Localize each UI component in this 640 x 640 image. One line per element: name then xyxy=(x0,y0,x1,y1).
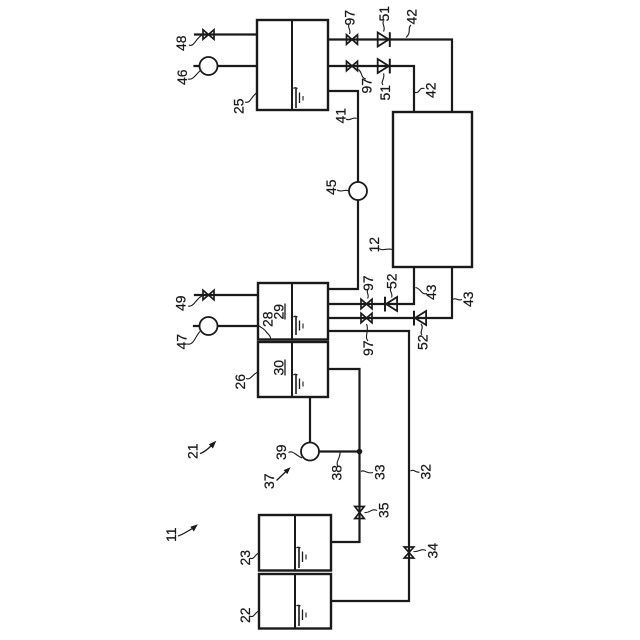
svg-text:25: 25 xyxy=(231,98,247,114)
svg-text:97: 97 xyxy=(360,340,376,356)
valve 97 on pipe 43 lower branch xyxy=(361,313,372,323)
pump 39 xyxy=(301,443,319,461)
pipe 33 (junction to tank 23 via valve 35) xyxy=(331,452,360,543)
valve 35 xyxy=(355,507,364,519)
leader for 46 xyxy=(188,71,201,80)
underline for 30 xyxy=(284,360,286,376)
tank 28/29 xyxy=(258,283,328,340)
pipe 42 upper (tank 25 to vessel 12) xyxy=(328,40,452,113)
svg-text:48: 48 xyxy=(173,35,189,51)
svg-text:41: 41 xyxy=(333,108,349,124)
leader for 42 second xyxy=(415,88,425,92)
leader for 22 xyxy=(250,611,259,617)
svg-text:39: 39 xyxy=(273,444,289,460)
pipe to pump 47 xyxy=(194,325,258,327)
svg-text:37: 37 xyxy=(261,473,277,489)
svg-text:23: 23 xyxy=(237,550,253,566)
pipe to pump 46 xyxy=(195,65,258,67)
leader for 35 xyxy=(365,510,378,513)
svg-text:38: 38 xyxy=(329,465,345,481)
leader for 43 mid xyxy=(416,288,428,294)
svg-text:52: 52 xyxy=(384,273,400,289)
leader for 49 xyxy=(188,296,202,306)
check valve 52 on pipe 43 upper branch xyxy=(385,297,397,312)
leader for 45 xyxy=(337,190,349,191)
svg-text:35: 35 xyxy=(376,502,392,518)
svg-text:51: 51 xyxy=(376,6,392,22)
liquid level in tank 22 xyxy=(297,605,307,626)
svg-text:47: 47 xyxy=(174,334,190,350)
leader for 52 mid upper xyxy=(390,288,392,298)
pump 46 xyxy=(200,57,218,75)
svg-text:42: 42 xyxy=(423,82,439,98)
arrow for 11 xyxy=(178,525,197,536)
svg-text:34: 34 xyxy=(425,543,441,559)
svg-text:26: 26 xyxy=(232,374,248,390)
pipe 41 (tank 25 to tank 29 via pump 45) xyxy=(328,91,358,289)
svg-text:46: 46 xyxy=(174,69,190,85)
leader for 51 upper xyxy=(383,21,384,32)
leader for 25 xyxy=(245,93,257,102)
svg-text:42: 42 xyxy=(404,9,420,25)
svg-text:12: 12 xyxy=(366,237,382,253)
check valve 52 on pipe 43 lower branch xyxy=(414,311,426,326)
valve 97 on pipe 43 upper branch xyxy=(361,299,372,309)
leader for 52 mid lower xyxy=(421,324,422,335)
vessel 12 xyxy=(393,112,472,267)
valve 48 xyxy=(203,30,214,40)
leader for 97 upper xyxy=(348,25,350,35)
svg-text:97: 97 xyxy=(360,275,376,291)
check valve 51 on pipe 42 lower xyxy=(378,59,390,74)
leader for 42 upper xyxy=(406,25,411,38)
tank 25 divider xyxy=(291,20,293,110)
svg-text:97: 97 xyxy=(359,78,375,94)
svg-text:45: 45 xyxy=(323,179,339,195)
leader for 32 xyxy=(411,470,420,472)
valve 97 on pipe 42 upper xyxy=(347,35,358,45)
leader for 41 xyxy=(346,118,357,120)
leader for 12 xyxy=(378,248,392,250)
svg-text:21: 21 xyxy=(185,443,201,459)
pipe 38 upper (tank 30 to junction) xyxy=(328,369,360,452)
pipe 32 (tank 29 to tank 22 via valve 34) xyxy=(328,331,409,601)
svg-text:11: 11 xyxy=(163,527,179,542)
pipe to valve 48 xyxy=(195,33,257,35)
pipe to valve 49 xyxy=(195,294,258,296)
svg-text:43: 43 xyxy=(423,284,439,300)
svg-text:52: 52 xyxy=(415,334,431,350)
underline for 29 xyxy=(284,304,286,320)
leader for 38 xyxy=(337,453,340,467)
svg-text:30: 30 xyxy=(271,360,287,376)
valve 49 xyxy=(203,290,214,300)
valve 97 on pipe 42 lower xyxy=(347,61,358,71)
svg-text:29: 29 xyxy=(271,304,287,320)
leader for 43 right xyxy=(453,299,463,300)
leader for 39 xyxy=(289,452,303,458)
tank 22 xyxy=(259,574,331,629)
liquid level in tank 25 xyxy=(294,88,304,108)
tank 23 divider xyxy=(294,515,296,571)
leader for 33 xyxy=(361,471,373,473)
tank 26/30 xyxy=(258,342,328,397)
liquid level in tank 29 xyxy=(294,316,304,335)
liquid level in tank 30 xyxy=(294,374,304,394)
svg-text:97: 97 xyxy=(342,10,358,26)
tank 22 divider xyxy=(294,574,296,629)
leader for 51 second xyxy=(382,74,384,86)
leader for 97 mid lower xyxy=(366,324,368,341)
leader for 26 xyxy=(246,372,258,379)
arrow for 21 xyxy=(200,442,216,454)
svg-text:51: 51 xyxy=(377,85,393,101)
tank 28/29 divider xyxy=(291,283,293,340)
pipe 38 (pump 39 to junction) xyxy=(310,450,360,452)
junction node xyxy=(357,449,363,455)
tank 23 xyxy=(259,515,331,571)
leader for 23 xyxy=(250,553,259,559)
pipe 42 lower (tank 25 to vessel 12) xyxy=(328,66,414,112)
svg-text:33: 33 xyxy=(372,464,388,480)
leader for 47 xyxy=(187,332,200,345)
svg-text:32: 32 xyxy=(418,464,434,480)
svg-text:22: 22 xyxy=(237,607,253,623)
leader for 34 xyxy=(414,550,427,552)
liquid level in tank 23 xyxy=(297,547,307,568)
leader for 28 xyxy=(258,322,271,339)
pump 45 xyxy=(349,182,367,200)
pipe tank 30 to pump 39 xyxy=(309,398,311,444)
leader for 97 second xyxy=(359,70,367,80)
pipe 43 upper branch (tank 29 to vessel 12) xyxy=(328,267,414,304)
leader for 97 mid upper xyxy=(367,290,368,299)
pump 47 xyxy=(200,317,218,335)
svg-text:43: 43 xyxy=(460,291,476,307)
tank 25 xyxy=(257,20,328,110)
valve 34 xyxy=(404,547,414,558)
pipe 43 lower branch (tank 29 to vessel 12) xyxy=(328,267,452,318)
check valve 51 on pipe 42 upper xyxy=(378,32,390,47)
tank 26/30 divider xyxy=(291,342,293,397)
svg-text:49: 49 xyxy=(173,295,189,311)
leader for 48 xyxy=(189,35,202,45)
arrow for 37 xyxy=(277,468,290,481)
